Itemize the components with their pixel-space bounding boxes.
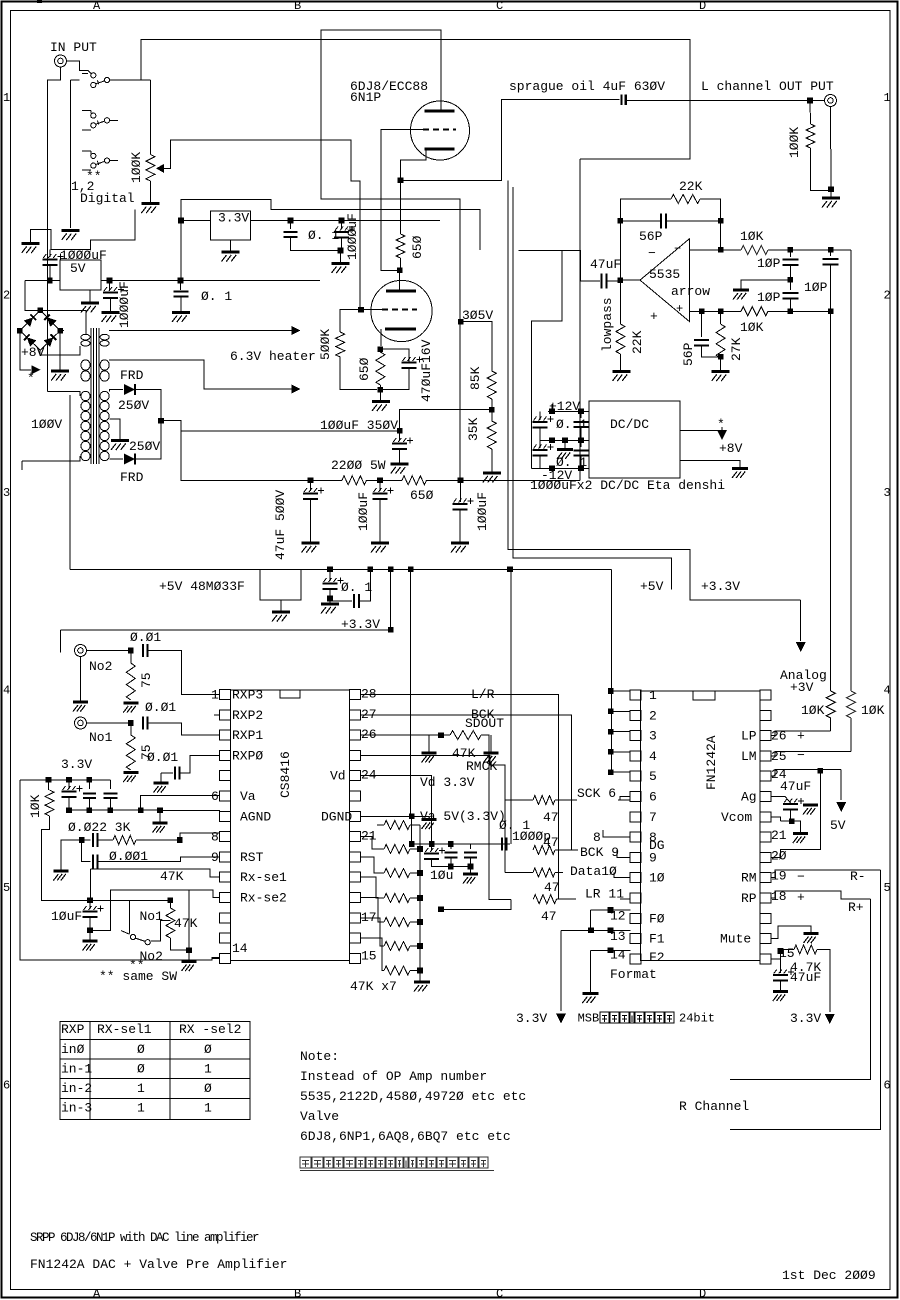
svg-text:4: 4 xyxy=(3,684,10,698)
junction 10P mid xyxy=(788,277,794,283)
wire Va up to pin6 xyxy=(141,796,220,810)
decoupling line Vd xyxy=(412,843,510,845)
wire below CS8416 xyxy=(212,957,220,959)
capacitor 56P feedback xyxy=(620,220,660,222)
capacitor 100uF right xyxy=(460,480,462,502)
wire L output to coupling cap xyxy=(401,100,620,181)
svg-text:24bit: 24bit xyxy=(679,1012,715,1026)
wire Va line xyxy=(69,809,160,811)
svg-text:+5V: +5V xyxy=(640,579,664,594)
resistor 27K xyxy=(720,311,722,324)
svg-text:3: 3 xyxy=(884,486,891,500)
junction filter node3 B+ xyxy=(458,478,464,484)
svg-text:SCK 6: SCK 6 xyxy=(577,786,616,801)
svg-text:Ø: Ø xyxy=(137,1062,145,1077)
junction pin15 node xyxy=(778,948,784,954)
capacitor 0.1 on 5V xyxy=(180,281,182,291)
svg-text:6: 6 xyxy=(649,790,657,805)
svg-text:1ØØuF: 1ØØuF xyxy=(356,492,371,531)
svg-text:DC/DC: DC/DC xyxy=(610,417,649,432)
arrow aux 8V out xyxy=(20,331,31,370)
junction 3.3V input xyxy=(178,218,184,224)
svg-text:B: B xyxy=(294,1287,301,1300)
svg-text:47uF: 47uF xyxy=(590,257,621,272)
svg-text:FN1242A DAC + Valve Pre Amplif: FN1242A DAC + Valve Pre Amplifier xyxy=(30,1257,287,1272)
wire fb node down xyxy=(619,221,621,280)
junction 5V out cap xyxy=(107,278,113,284)
resistor ladder 47K x7 xyxy=(384,821,410,830)
svg-text:Ø. 1: Ø. 1 xyxy=(201,289,232,304)
svg-text:22K: 22K xyxy=(679,179,703,194)
wire No2 to cap xyxy=(87,650,131,652)
wire mid rail dcdc xyxy=(540,439,589,441)
transformer T1 core xyxy=(90,328,92,464)
ground 0.01 third xyxy=(160,773,162,782)
svg-text:IN PUT: IN PUT xyxy=(50,40,97,55)
wire +3.3V analog path xyxy=(508,180,801,599)
bridge rectifier D1-D4 xyxy=(20,310,60,350)
junction 3.3V cap2 xyxy=(339,218,345,224)
resistor 35K xyxy=(491,410,493,421)
svg-text:+8V: +8V xyxy=(21,345,45,360)
svg-text:47K: 47K xyxy=(160,869,184,884)
capacitor 56P plus leg xyxy=(701,311,703,337)
capacitor Va 3 xyxy=(109,780,111,789)
IC U2 CS8416 body xyxy=(231,690,350,961)
svg-text:1ØØK: 1ØØK xyxy=(787,127,802,158)
svg-text:+3.3V: +3.3V xyxy=(341,617,380,632)
svg-text:47: 47 xyxy=(543,835,559,850)
svg-text:RX-sel1: RX-sel1 xyxy=(97,1022,152,1037)
svg-text:Ø.Ø22 3K: Ø.Ø22 3K xyxy=(68,820,131,835)
svg-text:3.3V: 3.3V xyxy=(61,757,92,772)
svg-text:65Ø: 65Ø xyxy=(357,357,372,381)
svg-text:L channel OUT PUT: L channel OUT PUT xyxy=(701,79,834,94)
svg-text:1ØØK: 1ØØK xyxy=(129,152,144,183)
wire minus input line xyxy=(690,249,741,251)
svg-text:Vd 3.3V: Vd 3.3V xyxy=(420,775,475,790)
ground Ag xyxy=(803,804,818,807)
junction divider mid xyxy=(489,407,495,413)
svg-text:47: 47 xyxy=(544,880,560,895)
svg-text:19: 19 xyxy=(771,869,787,884)
svg-text:−: − xyxy=(797,748,805,763)
svg-text:R Channel: R Channel xyxy=(679,1099,749,1114)
svg-text:1st Dec 2ØØ9: 1st Dec 2ØØ9 xyxy=(782,1268,876,1283)
svg-text:1ØP: 1ØP xyxy=(757,290,781,305)
svg-text:21: 21 xyxy=(771,828,787,843)
capacitor decoup3 xyxy=(470,844,472,849)
ground 10P mid xyxy=(741,280,790,289)
selector switch SW1c digital xyxy=(91,153,96,158)
capacitor Va 2 xyxy=(88,780,90,789)
svg-text:FØ: FØ xyxy=(649,911,665,926)
wire DGND pin7 xyxy=(361,816,412,844)
svg-text:5: 5 xyxy=(884,881,891,895)
resistor 10K upper xyxy=(741,245,768,254)
svg-text:65Ø: 65Ø xyxy=(410,488,434,503)
svg-text:Digital: Digital xyxy=(80,191,135,206)
svg-text:Ø. 1: Ø. 1 xyxy=(556,417,587,432)
svg-text:15: 15 xyxy=(361,948,377,963)
resistor 100K output load xyxy=(809,101,812,125)
wire switch common chain xyxy=(79,61,81,71)
wire F1 select xyxy=(608,928,614,934)
svg-text:Ø. 1: Ø. 1 xyxy=(341,580,372,595)
wire SW1a to pot line xyxy=(110,79,141,81)
wire L/R out CS pin28 xyxy=(361,695,559,900)
svg-text:1ØØØuF: 1ØØØuF xyxy=(117,281,132,328)
capacitor 470uF16V cathode bypass xyxy=(380,349,409,362)
svg-text:2: 2 xyxy=(884,289,891,303)
wire +8V from bridge to rail xyxy=(25,281,40,311)
ground SDOUT term 2 xyxy=(490,735,492,751)
svg-text:56P: 56P xyxy=(639,229,663,244)
svg-text:*: * xyxy=(27,371,35,386)
svg-text:+5V 48MØ33F: +5V 48MØ33F xyxy=(159,579,245,594)
wire sw line xyxy=(90,899,170,901)
wire wiper to grid xyxy=(164,140,360,310)
svg-text:6: 6 xyxy=(211,789,219,804)
svg-text:47uF 5ØØV: 47uF 5ØØV xyxy=(273,490,288,560)
capacitor bulk +12V xyxy=(580,411,582,418)
junction 47K bottom xyxy=(186,947,192,953)
resistor 47 bck xyxy=(533,846,555,855)
FN1242A notch xyxy=(693,691,715,700)
FN left pins xyxy=(630,690,641,700)
svg-text:6N1P: 6N1P xyxy=(350,90,381,105)
svg-text:6DJ8,6NP1,6AQ8,6BQ7 etc etc: 6DJ8,6NP1,6AQ8,6BQ7 etc etc xyxy=(300,1129,511,1144)
svg-text:R-: R- xyxy=(850,869,866,884)
svg-text:D: D xyxy=(699,0,706,13)
svg-text:5ØØK: 5ØØK xyxy=(318,329,333,360)
capacitor on 5V rail 2 xyxy=(330,599,352,602)
svg-text:12: 12 xyxy=(610,909,626,924)
svg-text:Valve: Valve xyxy=(300,1109,339,1124)
svg-text:Ø.Ø1: Ø.Ø1 xyxy=(147,750,178,765)
svg-text:+3.3V: +3.3V xyxy=(701,579,740,594)
svg-text:FRD: FRD xyxy=(120,470,144,485)
svg-text:1ØP: 1ØP xyxy=(804,280,828,295)
svg-text:CS8416: CS8416 xyxy=(278,751,293,798)
ground decoup xyxy=(470,867,472,873)
svg-text:RST: RST xyxy=(240,850,264,865)
wire pot top feed xyxy=(141,79,150,81)
capacitor decoup2 xyxy=(450,844,452,849)
svg-text:6: 6 xyxy=(3,1079,10,1093)
ground output xyxy=(830,189,832,196)
wire FN pin8 xyxy=(603,830,630,837)
svg-text:in-1: in-1 xyxy=(61,1062,92,1077)
svg-text:Ag: Ag xyxy=(741,790,757,805)
wire F2 to ground xyxy=(589,950,591,992)
wire 10uF to Rx-se2 xyxy=(90,890,220,930)
ground 5V reg xyxy=(89,290,91,301)
svg-text:22ØØ 5W: 22ØØ 5W xyxy=(331,458,386,473)
capacitor bulk -12V xyxy=(580,440,582,447)
svg-text:5535: 5535 xyxy=(649,267,680,282)
wire grid to 500K xyxy=(340,310,382,333)
junction filter node1 xyxy=(308,478,314,484)
svg-text:25ØV: 25ØV xyxy=(129,439,160,454)
pot wiper arrow xyxy=(156,164,164,173)
resistor 500K grid leak xyxy=(336,332,345,357)
resistor 3K xyxy=(113,836,136,845)
op-amp U1 5535 (mirrored) xyxy=(640,239,690,322)
svg-text:14: 14 xyxy=(232,941,248,956)
wire LM riser to minus input xyxy=(850,250,852,691)
resistor 650 upper cathode xyxy=(396,234,405,258)
connector J1 input RCA xyxy=(55,55,67,67)
wire 3.3V left rail down xyxy=(20,780,220,960)
wire LP riser to plus input xyxy=(830,311,832,691)
connector No2 input xyxy=(75,645,87,657)
capacitor 100uF mid xyxy=(379,480,381,491)
junction 0.1 bypass xyxy=(178,278,184,284)
svg-text:L/R: L/R xyxy=(471,687,495,702)
svg-text:RX -sel2: RX -sel2 xyxy=(179,1022,241,1037)
ground Vcom xyxy=(792,821,801,832)
wire -12V rail xyxy=(532,467,590,469)
junction cathode bottom xyxy=(378,387,384,393)
svg-text:2Ø: 2Ø xyxy=(771,848,787,863)
junction RC pin8 xyxy=(79,837,85,843)
svg-text:1ØK: 1ØK xyxy=(28,794,43,818)
junction 3.3V cap1 xyxy=(288,218,294,224)
svg-text:3.3V: 3.3V xyxy=(516,1011,547,1026)
svg-text:3Ø5V: 3Ø5V xyxy=(462,308,493,323)
wire +12V from above xyxy=(551,404,553,411)
svg-text:in-2: in-2 xyxy=(61,1081,92,1096)
DC/DC converter box xyxy=(589,401,680,478)
svg-text:8: 8 xyxy=(593,830,601,845)
svg-text:RXPØ: RXPØ xyxy=(232,748,263,763)
connector output RCA xyxy=(825,95,837,107)
wire dcdc feed xyxy=(532,250,562,468)
svg-text:BCK 9: BCK 9 xyxy=(580,845,619,860)
svg-text:1: 1 xyxy=(137,1101,145,1116)
capacitor 10P lower xyxy=(789,280,791,290)
ground 0.022 left xyxy=(53,870,68,873)
svg-text:RXP1: RXP1 xyxy=(232,728,263,743)
wire R channel input down xyxy=(579,159,581,480)
wire Va to pin6 xyxy=(109,809,111,810)
capacitor 0.1 on 5V rail xyxy=(329,569,331,581)
tube V1 6DJ8 upper xyxy=(411,101,470,160)
svg-text:1Øu: 1Øu xyxy=(430,868,453,883)
svg-text:1ØØØuF: 1ØØØuF xyxy=(60,248,107,263)
wire to SW common down xyxy=(70,80,72,228)
capacitor 47uF Ag xyxy=(771,797,791,804)
svg-text:27K: 27K xyxy=(729,337,744,361)
wire 47K to Rx-se2 pin xyxy=(188,890,190,950)
svg-text:+: + xyxy=(676,302,683,316)
svg-text:1ØK: 1ØK xyxy=(740,320,764,335)
svg-text:lowpass: lowpass xyxy=(600,297,615,352)
svg-text:Rx-se2: Rx-se2 xyxy=(240,891,287,906)
svg-text:6: 6 xyxy=(884,1079,891,1093)
table RXP select xyxy=(60,1022,250,1120)
svg-text:Va: Va xyxy=(240,789,256,804)
svg-text:1: 1 xyxy=(3,91,10,105)
resistor 10K on LM xyxy=(846,691,855,718)
wire bridge AC bottom xyxy=(40,346,80,355)
svg-text:22K: 22K xyxy=(630,330,645,354)
note japanese underlined xyxy=(300,1157,311,1168)
svg-text:MSB: MSB xyxy=(578,1012,600,1026)
resistor 85K xyxy=(487,371,496,399)
svg-text:25ØV: 25ØV xyxy=(118,398,149,413)
wire 510 down to DAC xyxy=(510,569,512,844)
wire jack shell down xyxy=(830,107,833,190)
resistor 4.7K xyxy=(780,949,794,951)
ground under 650 xyxy=(372,400,390,403)
svg-text:Vcom: Vcom xyxy=(721,810,752,825)
wire 24 net down to 20 xyxy=(771,771,821,858)
wire primary bottom xyxy=(22,456,80,461)
svg-text:in-3: in-3 xyxy=(61,1101,92,1116)
wire raw8V to reg xyxy=(25,280,60,282)
svg-text:5V: 5V xyxy=(830,818,846,833)
junction 5V reg input xyxy=(47,278,53,284)
svg-text:D: D xyxy=(699,1287,706,1300)
potentiometer VR1 100K xyxy=(149,80,151,155)
capacitor ecap 10u xyxy=(431,844,433,851)
ground dcdc mid xyxy=(564,440,566,448)
wire No1 to cap xyxy=(87,722,131,724)
svg-text:Va 5V(3.3V): Va 5V(3.3V) xyxy=(420,809,506,824)
svg-text:7: 7 xyxy=(649,810,657,825)
capacitor 10P upper xyxy=(789,250,791,257)
svg-text:4: 4 xyxy=(884,684,891,698)
wire dcdc lower pin to ground xyxy=(680,461,740,467)
junction filter node2 xyxy=(377,478,383,484)
capacitor 47uF input xyxy=(581,280,600,282)
svg-text:47: 47 xyxy=(541,909,557,924)
capacitor 0.1 +12V xyxy=(539,411,541,420)
wire rectified to filter xyxy=(161,421,311,481)
svg-text:LR 11: LR 11 xyxy=(585,887,624,902)
svg-text:3.3V: 3.3V xyxy=(218,211,249,226)
svg-text:C: C xyxy=(496,0,503,13)
svg-text:1ØØØuFx2 DC/DC Eta denshi: 1ØØØuFx2 DC/DC Eta denshi xyxy=(530,478,725,493)
resistor 47 lr xyxy=(533,895,556,904)
svg-text:R+: R+ xyxy=(848,900,864,915)
capacitor 1000uF 5V input xyxy=(49,250,51,257)
svg-text:RP: RP xyxy=(741,891,757,906)
wire Mute pin xyxy=(771,926,811,939)
wire bridge minus to ground xyxy=(59,331,61,370)
svg-text:LM: LM xyxy=(741,749,757,764)
svg-text:inØ: inØ xyxy=(61,1042,85,1057)
regulator 3.3V box xyxy=(211,211,251,240)
wire 3.3V to Va filter xyxy=(20,779,111,781)
wire 3.3V sub rail xyxy=(390,569,392,630)
svg-text:1ØØV: 1ØØV xyxy=(31,417,62,432)
svg-text:+: + xyxy=(797,890,805,905)
svg-text:−: − xyxy=(797,870,805,885)
junction 5Vrail caps xyxy=(327,567,333,573)
regulator +5V 48M033F xyxy=(69,395,71,569)
svg-text:SRPP 6DJ8/6N1P with DAC line a: SRPP 6DJ8/6N1P with DAC line amplifier xyxy=(30,1231,259,1245)
svg-text:1: 1 xyxy=(649,688,657,703)
svg-text:+3V: +3V xyxy=(790,680,814,695)
svg-text:Ø.Ø1: Ø.Ø1 xyxy=(145,700,176,715)
junction Vcom node xyxy=(789,818,795,824)
arrow analog 3V xyxy=(800,600,802,641)
wire LM to minus riser xyxy=(771,752,851,756)
wire heater winding taps xyxy=(109,330,111,332)
wire RM to R- xyxy=(771,870,881,878)
junction 10uF node xyxy=(87,898,93,904)
svg-text:RXP2: RXP2 xyxy=(232,708,263,723)
wire 3.3V input from 5V rail xyxy=(180,221,182,281)
ground 48M033F xyxy=(280,600,282,611)
wire V2 plate xyxy=(399,270,401,291)
wire V2 cathode xyxy=(380,329,382,346)
capacitor 0.1 on line xyxy=(501,838,503,851)
svg-text:1: 1 xyxy=(137,1081,145,1096)
ground DGND xyxy=(428,816,430,818)
svg-text:Ø: Ø xyxy=(137,1042,145,1057)
capacitor ecap Va xyxy=(68,780,70,789)
CS8416 right pins xyxy=(350,690,361,700)
svg-text:1ØØuF: 1ØØuF xyxy=(475,492,490,531)
wire bridge AC top xyxy=(40,310,86,334)
svg-text:RMCK: RMCK xyxy=(466,759,497,774)
svg-text:1Ø: 1Ø xyxy=(649,871,665,886)
wire to pin8 xyxy=(180,833,220,840)
svg-text:No2: No2 xyxy=(89,659,112,674)
wire F0 select xyxy=(608,907,614,913)
svg-text:RM: RM xyxy=(741,871,757,886)
svg-text:56P: 56P xyxy=(681,342,696,366)
svg-text:RXP: RXP xyxy=(61,1022,85,1037)
junction output ground node xyxy=(828,187,834,193)
svg-text:SDOUT: SDOUT xyxy=(465,716,504,731)
wire RP to R+ xyxy=(771,891,871,899)
ladder left connections xyxy=(361,815,371,817)
svg-text:2: 2 xyxy=(3,289,10,303)
junction 100uF 350V xyxy=(397,428,403,434)
wire plus input line xyxy=(690,310,741,312)
transformer center tap ground xyxy=(110,419,120,439)
resistor 2200 5W xyxy=(311,479,343,481)
svg-text:** same SW: ** same SW xyxy=(99,969,177,984)
wire divider to 100uF350V xyxy=(400,410,492,431)
wire B+ to V1 plate xyxy=(321,30,460,322)
svg-text:Data1Ø: Data1Ø xyxy=(570,864,617,879)
wire R+ down xyxy=(730,899,870,1079)
junction V2 plate node xyxy=(397,268,403,274)
resistor 650 filter xyxy=(402,476,427,485)
wire 100uF350V line left xyxy=(181,430,400,432)
junction fb right xyxy=(718,218,724,224)
capacitor sprague oil 4uF 630V xyxy=(620,95,622,106)
svg-text:47: 47 xyxy=(543,810,559,825)
wire pin24 5V arrow xyxy=(771,770,842,777)
wire R- down xyxy=(730,870,881,1129)
svg-text:8: 8 xyxy=(211,830,219,845)
svg-text:1ØuF: 1ØuF xyxy=(51,909,82,924)
wire BCK out CS pin27 xyxy=(361,715,572,850)
wire Vd pin5 xyxy=(361,776,432,844)
connector No1 input xyxy=(75,717,87,729)
svg-text:Mute: Mute xyxy=(720,932,751,947)
svg-text:14: 14 xyxy=(610,948,626,963)
svg-text:FN1242A: FN1242A xyxy=(704,735,719,790)
selector switch SW1b xyxy=(82,73,88,75)
